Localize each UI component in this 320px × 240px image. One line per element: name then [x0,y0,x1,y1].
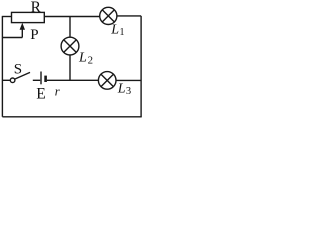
wire top-left to rheostat [2,16,12,18]
wire L3 to right vertical [116,79,141,81]
svg-text:L1: L1 [110,23,124,39]
wire left vertical to switch [2,79,10,81]
switch S [10,72,30,82]
node A top junction [70,16,100,18]
wiper arrow P head [20,23,25,30]
svg-text:S: S [14,61,22,77]
svg-text:E: E [36,86,46,103]
rheostat R [12,12,45,22]
wire wiper to left vertical [2,37,22,39]
wire battery to node B [47,79,70,81]
wire switch to battery [33,79,40,81]
wiper arrow P stem [21,26,23,38]
wire right vertical [140,16,142,117]
battery E negative plate [44,76,47,82]
svg-text:L2: L2 [78,51,93,67]
svg-text:r: r [55,85,60,99]
node B junction to lamp L3 [70,79,99,81]
lamp L2 [61,37,79,55]
wire rheostat to node A [44,16,70,18]
svg-text:R: R [31,0,42,16]
wire L2 branch lower [69,55,71,80]
lamp L1 [100,7,117,24]
lamp L3 [98,72,116,90]
wire bottom [2,116,141,118]
wire L1 to top-right corner [117,15,141,17]
wire L2 branch upper [69,17,71,38]
battery E positive plate [40,72,42,85]
svg-text:P: P [30,27,38,43]
svg-text:L3: L3 [117,81,131,97]
wire left vertical [1,17,3,117]
